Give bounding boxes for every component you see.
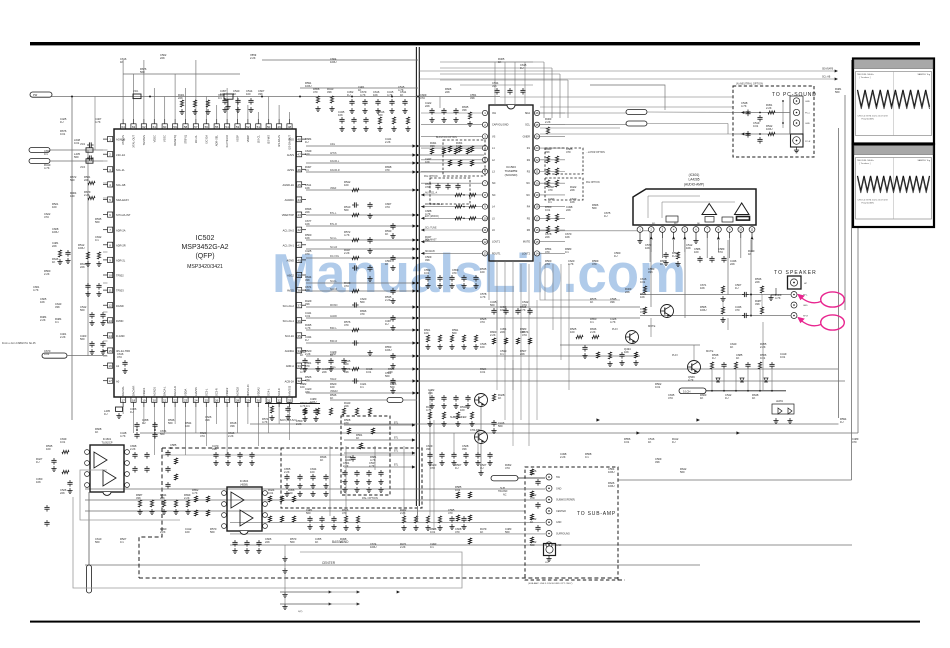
- wire bottom-left loop: [73, 497, 462, 588]
- component cluster top mid extra: [341, 117, 343, 119]
- component row right of 5.1ch: [710, 362, 713, 369]
- sub-amp last jack square: [544, 544, 556, 556]
- svg-text:29: 29: [246, 398, 250, 402]
- bottom arrows near x300: [280, 591, 330, 593]
- svg-text:1K: 1K: [356, 436, 359, 440]
- svg-text:LED51: LED51: [776, 401, 784, 403]
- op-amp IC1604 body: [227, 487, 262, 531]
- wire speaker row 1: [640, 294, 791, 296]
- bottom mid extra cluster B: [303, 408, 306, 415]
- svg-text:MSP3420/3421: MSP3420/3421: [187, 264, 223, 270]
- svg-text:560: 560: [680, 470, 685, 474]
- svg-text:17: 17: [108, 379, 112, 383]
- components inside option box left: [448, 146, 451, 152]
- capacitor cluster pcsound: [747, 110, 749, 112]
- svg-text:470: 470: [592, 262, 597, 266]
- svg-text:1U: 1U: [672, 440, 675, 444]
- svg-text:A1: A1: [116, 364, 120, 368]
- svg-text:SC4-L: SC4-L: [267, 388, 271, 396]
- svg-text:NICAM-B: NICAM-B: [425, 250, 435, 253]
- svg-text:ASG2: ASG2: [287, 274, 294, 278]
- svg-text:33K: 33K: [610, 300, 615, 304]
- svg-text:64: 64: [121, 125, 125, 129]
- svg-text:33K: 33K: [305, 302, 310, 306]
- svg-text:ACL-2A-1: ACL-2A-1: [283, 243, 295, 247]
- svg-text:470: 470: [388, 370, 393, 374]
- svg-text:47U: 47U: [200, 434, 205, 438]
- component cluster IC502 left low: [91, 312, 93, 314]
- wire bottom long bus 4 BASS/GND: [85, 510, 525, 512]
- svg-text:0.01: 0.01: [624, 440, 630, 444]
- svg-text:100: 100: [310, 470, 315, 474]
- svg-text:2.2K: 2.2K: [284, 470, 290, 474]
- dashed option box right2 of IC1503: [545, 178, 583, 200]
- mid band cluster y340: [492, 338, 495, 344]
- svg-text:36: 36: [297, 319, 301, 323]
- svg-text:100: 100: [480, 270, 485, 274]
- svg-text:4.7K: 4.7K: [480, 295, 486, 299]
- wire branch x95 down: [94, 97, 96, 151]
- cap pair below IC502: [136, 422, 138, 424]
- svg-text:SDA/5AFB: SDA/5AFB: [822, 68, 834, 71]
- wire bus long right 4: [419, 380, 845, 382]
- svg-text:PAL OPTION: PAL OPTION: [586, 181, 600, 184]
- svg-text:DACA-L: DACA-L: [163, 386, 167, 396]
- component column x168 between ICs: [167, 450, 169, 452]
- component cluster near Q604: [492, 394, 495, 401]
- svg-text:1K: 1K: [385, 232, 388, 236]
- svg-text:4.7K: 4.7K: [300, 370, 306, 374]
- svg-text:560: 560: [490, 303, 495, 307]
- svg-text:IC1601: IC1601: [103, 437, 112, 441]
- wire bottom long bus 1: [250, 423, 839, 425]
- dashed box TO SUB-AMP: [525, 467, 618, 580]
- op-amp IC1503 TDA9859 body: [489, 105, 533, 261]
- svg-text:HP: HP: [804, 283, 808, 285]
- cluster right of PAL box: [402, 516, 405, 523]
- connector speaker pins: [791, 292, 797, 298]
- svg-text:0.01: 0.01: [60, 132, 66, 136]
- svg-text:2.2K: 2.2K: [60, 335, 66, 339]
- svg-text:560: 560: [168, 421, 173, 425]
- component cluster above IC502 far left: [180, 100, 183, 107]
- svg-text:100: 100: [460, 408, 465, 412]
- svg-text:20: 20: [153, 398, 157, 402]
- op-amp IC502 MSP3452G-A2 QFP body: [114, 129, 296, 397]
- svg-text:1K: 1K: [340, 540, 343, 544]
- svg-text:2.2K: 2.2K: [385, 298, 391, 302]
- svg-text:BTL: BTL: [394, 465, 399, 467]
- svg-text:470: 470: [344, 421, 349, 425]
- svg-text:BTL: BTL: [394, 423, 399, 425]
- component cluster below IC1503 col2: [426, 335, 429, 342]
- svg-text:NC: NC: [526, 194, 530, 197]
- svg-text:0.01: 0.01: [655, 385, 661, 389]
- svg-text:12: 12: [108, 304, 112, 308]
- svg-text:1U: 1U: [36, 460, 39, 464]
- svg-text:IC502: IC502: [196, 235, 215, 242]
- svg-text:47U: 47U: [117, 355, 122, 359]
- svg-text:33K: 33K: [470, 96, 475, 100]
- svg-text:1U: 1U: [385, 322, 388, 326]
- svg-text:AGNDC: AGNDC: [285, 198, 294, 202]
- capacitor cluster IC502 left mid2: [87, 283, 89, 285]
- svg-text:33K: 33K: [55, 305, 60, 309]
- IC601 inner blocks: [666, 216, 678, 222]
- svg-text:47: 47: [297, 153, 301, 157]
- connector SB2 pill: [29, 159, 50, 164]
- svg-text:1K: 1K: [752, 396, 755, 400]
- svg-text:TO PC-SOUND: TO PC-SOUND: [772, 92, 817, 98]
- svg-text:NC: NC: [492, 194, 496, 197]
- mid bottom column clusters: [309, 516, 311, 518]
- svg-text:2.2K: 2.2K: [490, 333, 496, 337]
- svg-text:22K: 22K: [566, 208, 571, 212]
- svg-text:100U: 100U: [370, 545, 376, 549]
- svg-text:AGND2: AGND2: [236, 387, 240, 396]
- svg-text:SC3-R: SC3-R: [215, 388, 219, 396]
- svg-text:CTR-DIR: CTR-DIR: [470, 429, 480, 432]
- svg-text:A0: A0: [116, 379, 120, 383]
- wire elbow to TH pills: [590, 85, 665, 110]
- svg-text:SCL-TUNE: SCL-TUNE: [425, 228, 437, 230]
- svg-text:470: 470: [530, 496, 535, 500]
- transistor Q604: [475, 394, 488, 407]
- svg-text:100U: 100U: [52, 230, 58, 234]
- svg-text:100: 100: [46, 447, 51, 451]
- svg-text:MONO: MONO: [330, 304, 338, 307]
- svg-text:0.1: 0.1: [500, 352, 504, 356]
- svg-text:AVDD: AVDD: [287, 289, 294, 293]
- svg-text:22K: 22K: [545, 235, 550, 239]
- svg-text:18: 18: [132, 398, 136, 402]
- svg-text:10K: 10K: [640, 295, 645, 299]
- svg-text:SC2-2A: SC2-2A: [285, 334, 294, 338]
- svg-text:DVDD: DVDD: [116, 319, 123, 323]
- svg-text:10K: 10K: [305, 222, 310, 226]
- svg-text:10K: 10K: [425, 160, 430, 164]
- resistor cluster right of IC1503: [546, 127, 549, 134]
- svg-text:2.2K: 2.2K: [160, 530, 166, 534]
- svg-text:AHVS: AHVS: [287, 153, 294, 157]
- svg-text:SCL-AB: SCL-AB: [116, 183, 126, 187]
- resistor cluster top mid: [316, 96, 319, 103]
- wire gray loop right mid: [540, 262, 620, 300]
- wires Q604 risers: [480, 407, 482, 430]
- IC502 bottom pin row: [121, 397, 126, 402]
- svg-text:VREF2: VREF2: [330, 390, 338, 393]
- svg-text:560: 560: [385, 374, 390, 378]
- svg-text:11: 11: [751, 228, 754, 232]
- capacitor C530 left lower: [124, 360, 126, 362]
- svg-text:55: 55: [215, 125, 219, 129]
- svg-text:51: 51: [257, 125, 261, 129]
- svg-text:20: 20: [535, 181, 539, 185]
- svg-text:TO SPEAKER: TO SPEAKER: [774, 270, 817, 276]
- IC1601 pins: [85, 450, 90, 455]
- small circuit bottom right LED: [772, 404, 794, 414]
- svg-text:STBYQ: STBYQ: [184, 135, 188, 144]
- magenta callout ellipse lower: [821, 315, 845, 330]
- svg-text:4.7K: 4.7K: [305, 326, 311, 330]
- wire IC502 top pin risers: [122, 60, 124, 119]
- svg-text:2.2K: 2.2K: [250, 56, 256, 60]
- component cluster above IC1503 top: [496, 88, 498, 90]
- svg-text:53: 53: [236, 125, 240, 129]
- svg-text:10K: 10K: [570, 200, 575, 204]
- svg-text:4.7K: 4.7K: [520, 308, 526, 312]
- svg-text:4.7K: 4.7K: [95, 120, 101, 124]
- svg-text:560: 560: [498, 424, 503, 428]
- svg-text:1U: 1U: [142, 421, 145, 425]
- svg-text:19: 19: [535, 193, 539, 197]
- svg-text:33K: 33K: [430, 144, 435, 148]
- connector pill into subamp: [491, 476, 518, 481]
- svg-text:31: 31: [267, 398, 271, 402]
- risers above IC1503: [494, 62, 496, 105]
- svg-text:ACB-2A: ACB-2A: [285, 379, 295, 383]
- dashed option box right of IC1503: [545, 148, 583, 174]
- svg-text:100: 100: [288, 491, 293, 495]
- wire right riser group: [838, 128, 840, 418]
- svg-text:Freq 50.0kHz: Freq 50.0kHz: [862, 117, 874, 120]
- component cluster left of Q602: [576, 335, 583, 338]
- svg-text:ADR-2L: ADR-2L: [116, 259, 126, 263]
- wire bottom verticals x285: [284, 545, 286, 604]
- svg-text:GND: GND: [805, 123, 810, 125]
- svg-text:4.7K: 4.7K: [370, 458, 376, 462]
- svg-text:22K: 22K: [322, 370, 327, 374]
- bottom arrows extra: [357, 590, 360, 593]
- svg-text:100: 100: [300, 385, 305, 389]
- svg-text:47U: 47U: [718, 250, 723, 254]
- IC1503 left pins: [482, 110, 487, 115]
- svg-text:1U: 1U: [104, 412, 107, 416]
- wire bus long right 1: [419, 306, 640, 308]
- top border bar: [30, 42, 920, 45]
- svg-text:560: 560: [530, 543, 535, 547]
- svg-text:10K: 10K: [565, 235, 570, 239]
- wire mid bottom pill: [330, 399, 387, 401]
- svg-text:2.2K: 2.2K: [344, 251, 350, 255]
- components inside PAL OPTION: [344, 470, 346, 472]
- svg-text:0.1: 0.1: [218, 96, 222, 100]
- svg-text:100: 100: [70, 194, 75, 198]
- svg-text:ACL-2A-2: ACL-2A-2: [283, 228, 295, 232]
- svg-text:39: 39: [297, 274, 301, 278]
- svg-text:2.2K: 2.2K: [400, 545, 406, 549]
- svg-text:47U: 47U: [640, 310, 645, 314]
- svg-text:I2C-DA: I2C-DA: [204, 135, 208, 144]
- svg-text:100: 100: [185, 424, 190, 428]
- transistor Q605: [475, 431, 488, 444]
- svg-text:AGND1: AGND1: [152, 387, 156, 396]
- svg-text:470: 470: [566, 150, 571, 154]
- svg-text:14: 14: [108, 334, 112, 338]
- svg-text:17: 17: [121, 398, 125, 402]
- svg-text:33K: 33K: [136, 496, 141, 500]
- component cluster below IC1503 col3: [431, 395, 433, 397]
- svg-text:45: 45: [297, 183, 301, 187]
- svg-text:2.2K: 2.2K: [40, 318, 46, 322]
- svg-text:33K: 33K: [212, 447, 217, 451]
- svg-text:470: 470: [452, 271, 457, 275]
- svg-text:2.2K: 2.2K: [84, 193, 90, 197]
- component cluster right of bus upper: [430, 148, 433, 154]
- svg-text:...LATOR OPTION: ...LATOR OPTION: [586, 151, 605, 154]
- wires PAL OPTION to bus with arrows: [344, 424, 413, 426]
- svg-text:LOUT2: LOUT2: [522, 252, 531, 255]
- svg-text:47U: 47U: [505, 466, 510, 470]
- svg-text:4.7K: 4.7K: [398, 88, 404, 92]
- svg-text:16: 16: [108, 364, 112, 368]
- svg-text:22K: 22K: [445, 90, 450, 94]
- svg-text:33K: 33K: [327, 90, 332, 94]
- svg-text:LOUT1: LOUT1: [492, 241, 501, 244]
- svg-text:TESTEN: TESTEN: [142, 135, 146, 145]
- svg-text:NC: NC: [526, 182, 530, 185]
- magenta arrow upper: [799, 296, 821, 303]
- IC1503 right pins: [534, 110, 539, 115]
- svg-text:PLAY: PLAY: [612, 328, 618, 331]
- svg-text:100: 100: [344, 183, 349, 187]
- svg-text:0.1: 0.1: [306, 404, 310, 408]
- wire bus long right 5: [419, 355, 640, 357]
- svg-text:33K: 33K: [492, 84, 497, 88]
- svg-text:0.1: 0.1: [305, 168, 309, 172]
- svg-text:4.7K: 4.7K: [300, 404, 306, 408]
- svg-text:4.7K: 4.7K: [425, 212, 431, 216]
- svg-text:49: 49: [277, 125, 281, 129]
- components on PAL wires: [347, 428, 350, 434]
- svg-text:470: 470: [344, 323, 349, 327]
- svg-text:GND: GND: [805, 101, 810, 103]
- svg-text:47U: 47U: [420, 96, 425, 100]
- svg-text:33K: 33K: [648, 270, 653, 274]
- svg-text:TEK RUN: 50kS/s: TEK RUN: 50kS/s: [857, 74, 874, 76]
- dashed option box left of IC1503: [443, 140, 485, 176]
- svg-text:560: 560: [505, 530, 510, 534]
- arrow row below IC502: [596, 418, 600, 421]
- junction dots on bus: [416, 145, 418, 147]
- svg-text:2.2K: 2.2K: [184, 496, 190, 500]
- svg-text:4.7K: 4.7K: [120, 434, 126, 438]
- svg-text:1U: 1U: [305, 140, 308, 144]
- wire IC502 right to bus arrows: [306, 145, 414, 147]
- svg-text:AHVSS: AHVSS: [194, 387, 198, 396]
- svg-text:GND: GND: [556, 521, 562, 524]
- wire mute row: [560, 344, 700, 346]
- svg-text:SCL-2L: SCL-2L: [116, 168, 125, 172]
- svg-text:100U: 100U: [330, 60, 336, 64]
- svg-text:AHVSS2: AHVSS2: [288, 385, 292, 396]
- component cluster left of IC1601: [62, 450, 69, 453]
- svg-text:13: 13: [108, 319, 112, 323]
- pill connector mid bottom: [387, 398, 403, 403]
- arrow labels right top: [419, 70, 836, 72]
- amplifier triangle IC1604 a: [231, 492, 244, 508]
- wire left bottom pill: [67, 355, 107, 357]
- svg-text:50: 50: [267, 125, 271, 129]
- wire bus to right top group: [419, 145, 484, 147]
- svg-text:10K: 10K: [338, 113, 343, 117]
- vertical wire pcsound: [782, 101, 784, 128]
- svg-text:0.01: 0.01: [305, 314, 311, 318]
- svg-text:VSSC: VSSC: [163, 135, 167, 142]
- svg-text:10K: 10K: [40, 300, 45, 304]
- dashed box PAL OPTION bottom: [341, 416, 390, 495]
- svg-text:42: 42: [297, 228, 301, 232]
- svg-text:0.01: 0.01: [60, 440, 66, 444]
- svg-text:1K: 1K: [300, 353, 303, 357]
- svg-text:100: 100: [424, 331, 429, 335]
- svg-text:1K: 1K: [358, 88, 361, 92]
- svg-text:58: 58: [184, 125, 188, 129]
- component cluster IC502 left mid: [86, 252, 89, 259]
- svg-text:10K: 10K: [373, 93, 378, 97]
- svg-text:10K: 10K: [305, 186, 310, 190]
- amplifier triangle IC1601 b: [103, 470, 116, 486]
- arrows inside pcsound: [741, 111, 744, 114]
- wires lower mid risers: [329, 446, 331, 516]
- wire bus long right 3: [419, 368, 838, 370]
- bottom border bar: [30, 621, 920, 623]
- extra res trio mute base: [596, 352, 599, 358]
- svg-text:2.2K: 2.2K: [228, 434, 234, 438]
- wire SB1: [50, 149, 103, 151]
- svg-text:0.1: 0.1: [590, 320, 594, 324]
- svg-text:2.2K: 2.2K: [545, 120, 551, 124]
- svg-text:2.2K: 2.2K: [590, 330, 596, 334]
- svg-text:100: 100: [500, 308, 505, 312]
- svg-text:0.1: 0.1: [585, 455, 589, 459]
- dashed boundary left edge: [139, 448, 162, 578]
- svg-text:4.7K: 4.7K: [688, 378, 694, 382]
- svg-text:VDDP: VDDP: [246, 135, 250, 142]
- IC601 pin circles: [637, 227, 643, 233]
- svg-text:470: 470: [305, 252, 310, 256]
- svg-text:12: 12: [483, 240, 487, 244]
- wire left vertical riser: [71, 97, 73, 421]
- svg-text:560: 560: [360, 300, 365, 304]
- svg-text:BLAST/ON OPTION: BLAST/ON OPTION: [436, 136, 457, 139]
- speaker small bracket: [775, 288, 777, 295]
- svg-text:48: 48: [288, 125, 292, 129]
- svg-text:VREF2: VREF2: [225, 387, 229, 396]
- svg-text:11: 11: [484, 228, 487, 232]
- svg-text:0.01: 0.01: [366, 370, 372, 374]
- svg-text:BTL-L: BTL-L: [330, 212, 337, 215]
- svg-text:27: 27: [225, 398, 229, 402]
- wire SB2: [50, 160, 103, 162]
- ground below jack: [796, 148, 798, 151]
- svg-text:18: 18: [535, 205, 539, 209]
- svg-text:100U: 100U: [608, 484, 614, 488]
- svg-text:D-GND: D-GND: [116, 334, 125, 338]
- svg-text:25: 25: [205, 398, 209, 402]
- svg-text:L502: L502: [80, 144, 86, 146]
- svg-text:SC3-L: SC3-L: [204, 388, 208, 396]
- node dots top wire: [71, 96, 73, 98]
- svg-text:4.7K: 4.7K: [568, 262, 574, 266]
- mid band cluster y310: [493, 308, 495, 310]
- wire bottom long bus 6: [85, 564, 700, 566]
- wire PW to bus: [52, 94, 72, 96]
- capacitor cluster above IC502 right: [351, 99, 353, 101]
- oscilloscope panel lower: [853, 145, 934, 228]
- svg-text:From e-Con CN802 Pin No.45: From e-Con CN802 Pin No.45: [2, 342, 36, 345]
- svg-text:0.1: 0.1: [430, 545, 434, 549]
